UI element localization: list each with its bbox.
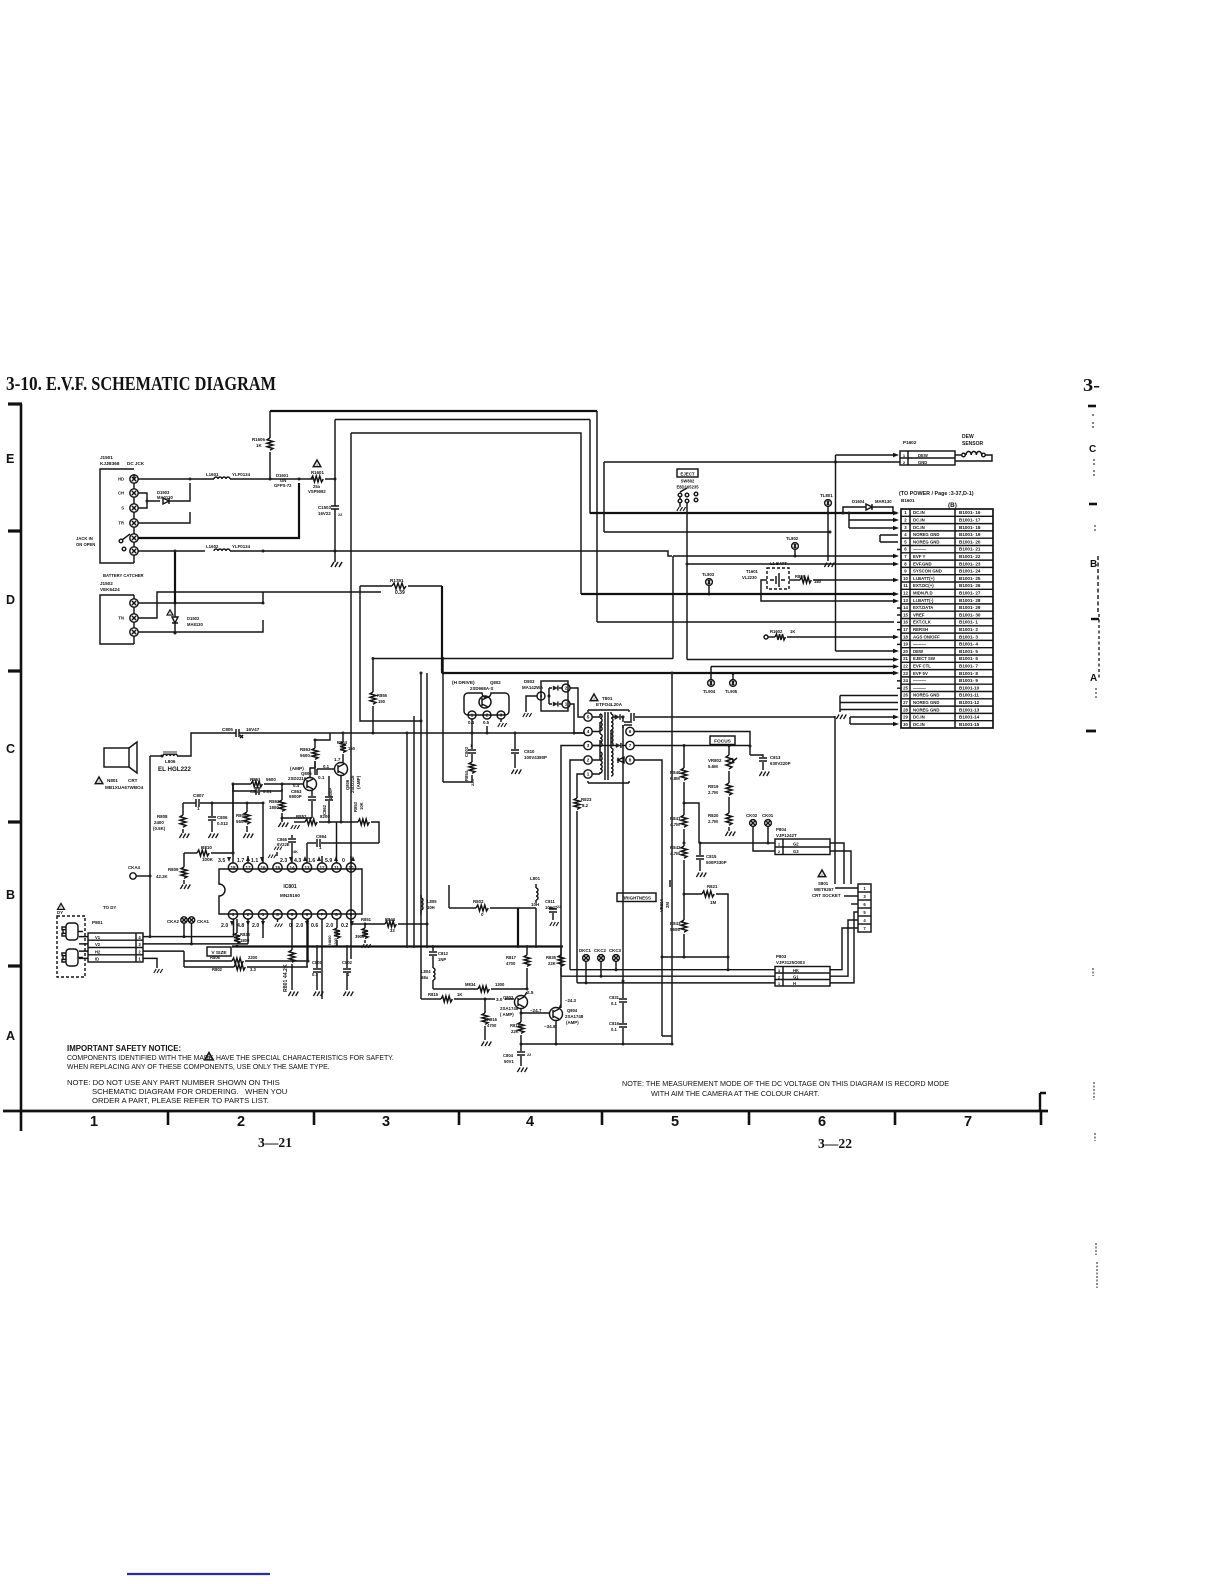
svg-text:B1001- 24: B1001- 24 (959, 569, 981, 574)
wire top bus B (y=419) (335, 420, 590, 514)
test points CKA2 CKA1 (167, 917, 210, 946)
svg-text:1: 1 (138, 957, 141, 962)
left border frame with zone letters (6, 404, 22, 1131)
svg-text:KJJB368: KJJB368 (100, 461, 120, 466)
svg-text:J1501: J1501 (100, 455, 113, 460)
wire from jack pin HD (138, 478, 214, 481)
transistor Q803 (500, 990, 534, 1017)
capacitor C811 connection (536, 908, 559, 926)
wire Q803 collector (524, 986, 527, 997)
wire row 23 EVF 5V (y=673 bus) (443, 671, 899, 676)
wires T801 left pins down (561, 746, 584, 831)
resistor R1601 (safety) (308, 460, 337, 494)
svg-text:B1001- 30: B1001- 30 (959, 612, 981, 617)
svg-text:EVF 5V: EVF 5V (913, 671, 928, 676)
svg-text:R851: R851 (361, 917, 372, 922)
svg-text:NOREG GND: NOREG GND (913, 700, 940, 705)
svg-text:!: ! (98, 779, 99, 784)
capacitor C803 / resistor R854 series (443, 733, 476, 786)
svg-text:C1503: C1503 (318, 505, 331, 510)
svg-text:–24.7: –24.7 (530, 1008, 542, 1013)
V SIZE label (207, 947, 231, 956)
svg-text:18: 18 (903, 634, 908, 639)
svg-text:10H: 10H (531, 902, 539, 907)
svg-text:42.2K: 42.2K (156, 874, 169, 879)
adjacent page number fragment 3- (1083, 375, 1100, 395)
capacitor C804 (503, 1044, 531, 1072)
diode D1503 (138, 483, 190, 504)
wire long vertical x=351 (350, 433, 352, 959)
svg-text:7: 7 (629, 743, 632, 748)
svg-text:B1001- 20: B1001- 20 (959, 539, 981, 544)
svg-text:1M: 1M (710, 900, 716, 905)
svg-text:B1001- 29: B1001- 29 (959, 605, 981, 610)
wire Q805 collector top (310, 761, 315, 777)
svg-text:9: 9 (350, 912, 353, 917)
svg-text:3: 3 (262, 912, 265, 917)
tick stubs on unconnected table rows (897, 550, 901, 689)
wire D803 pin2 to T801 pin5 (570, 688, 583, 717)
svg-text:EXT.DATA: EXT.DATA (913, 605, 933, 610)
IC801 top pin values (218, 856, 355, 864)
svg-text:NOREG GND: NOREG GND (913, 693, 940, 698)
svg-text:CRT: CRT (128, 778, 138, 783)
wire row 20 DEW (836, 649, 900, 654)
svg-text:IC801: IC801 (283, 884, 297, 890)
svg-text:10: 10 (903, 576, 908, 581)
resistor M834 (433, 982, 529, 992)
inductor L1602 (206, 544, 335, 553)
svg-text:P803: P803 (776, 954, 787, 959)
svg-text:3-: 3- (1083, 375, 1100, 395)
svg-text:CKC3: CKC3 (609, 948, 622, 953)
svg-text:4.8: 4.8 (237, 923, 244, 929)
svg-text:C811: C811 (545, 899, 555, 904)
switch SW802 EJECT (676, 469, 699, 503)
svg-text:B1001- 8: B1001- 8 (959, 671, 978, 676)
svg-text:HD: HD (118, 477, 124, 482)
svg-text:TL904: TL904 (703, 689, 716, 694)
svg-text:0: 0 (481, 912, 484, 917)
capacitor C1503 (318, 479, 342, 553)
wires rows 29,30 (850, 715, 899, 727)
svg-text:C864: C864 (316, 834, 327, 839)
wire jack pin5 to D1601 node (138, 483, 299, 538)
svg-text:2: 2 (237, 1114, 245, 1130)
bottom ruler with grid numbers (3, 1111, 1048, 1130)
svg-text:R852: R852 (296, 814, 307, 819)
svg-text:L1 BATT: L1 BATT (770, 561, 787, 566)
svg-text:BRIGHTNESS: BRIGHTNESS (622, 896, 651, 901)
svg-text:DC.IN: DC.IN (913, 715, 925, 720)
svg-text:15: 15 (275, 865, 281, 870)
svg-text:3—21: 3—21 (258, 1136, 292, 1151)
svg-text:ID: ID (95, 957, 99, 962)
svg-text:NOREG GND: NOREG GND (913, 539, 940, 544)
svg-text:6: 6 (629, 729, 632, 734)
svg-text:4.3: 4.3 (294, 858, 301, 864)
label EL HGL222 (158, 766, 191, 773)
svg-text:R820: R820 (708, 813, 719, 818)
svg-text:SENSOR: SENSOR (962, 441, 984, 447)
svg-text:C807: C807 (193, 793, 204, 798)
connector table B1601 (901, 498, 993, 728)
svg-text:TN: TN (118, 616, 124, 621)
inductor L1601 (206, 472, 272, 481)
svg-text:DEW: DEW (962, 434, 974, 440)
svg-text:Q804: Q804 (567, 1008, 578, 1013)
svg-text:4: 4 (276, 912, 279, 917)
wire row 22 EVF CTL (711, 664, 899, 669)
svg-text:16V47: 16V47 (246, 727, 260, 732)
label 0.4 C863 6800P (289, 783, 302, 799)
svg-text:N801: N801 (107, 778, 118, 783)
svg-text:(AMP): (AMP) (566, 1020, 579, 1025)
svg-text:T1601: T1601 (746, 569, 759, 574)
test point CKA4 (128, 865, 152, 879)
svg-text:2.0: 2.0 (296, 923, 303, 929)
wire bus y=673 left part (442, 660, 444, 673)
resistor R809 (156, 853, 190, 889)
svg-text:IMPORTANT SAFETY NOTICE:: IMPORTANT SAFETY NOTICE: (67, 1044, 181, 1053)
svg-text:2: 2 (565, 686, 568, 691)
resistor R844 (365, 917, 429, 933)
wire jack pin6 / L1602 (138, 550, 205, 552)
svg-text:C803: C803 (464, 746, 469, 757)
resistor R802 (184, 919, 310, 972)
svg-text:3.0: 3.0 (496, 997, 503, 1002)
svg-text:3—22: 3—22 (818, 1137, 852, 1152)
svg-text:C805: C805 (222, 727, 233, 732)
wire Q804 emitter bottom rail (521, 1021, 672, 1046)
svg-text:———: ——— (913, 678, 927, 683)
svg-text:R853: R853 (353, 801, 358, 812)
page number 3-22 (818, 1137, 852, 1152)
connector J1502 battery catcher (100, 581, 138, 644)
wire top bus A (y=411) (270, 411, 894, 622)
capacitor C862 1500P (322, 776, 333, 822)
resistor R820 (708, 813, 735, 836)
svg-text:–34.8: –34.8 (544, 1024, 556, 1029)
resistor R841 (670, 803, 687, 846)
resistor R805 (236, 803, 253, 838)
svg-text:2.0: 2.0 (252, 923, 259, 929)
svg-text:T801: T801 (602, 696, 613, 701)
battery T1601 with dashed box (742, 561, 789, 589)
resistor R808 (153, 803, 189, 838)
svg-text:17: 17 (245, 865, 251, 870)
svg-text:B1001- 19: B1001- 19 (959, 532, 981, 537)
svg-text:2SA1748: 2SA1748 (565, 1014, 584, 1019)
svg-text:ON OPEN: ON OPEN (76, 542, 95, 547)
dew sensor (955, 434, 992, 461)
wire verticals x=662,672 bottom (662, 672, 674, 1046)
svg-text:MIDN.R.D: MIDN.R.D (913, 591, 933, 596)
right margin fragments of adjacent page (1040, 406, 1099, 1288)
svg-text:10H: 10H (427, 905, 435, 910)
wire x=443 link (442, 673, 444, 782)
svg-text:2400: 2400 (154, 820, 164, 825)
svg-text:630V220P: 630V220P (770, 761, 791, 766)
svg-text:MB1XUA67WBO4: MB1XUA67WBO4 (105, 785, 144, 790)
svg-text:11: 11 (334, 865, 339, 870)
svg-text:1: 1 (587, 772, 590, 777)
svg-text:0.4: 0.4 (293, 783, 300, 788)
svg-text:1K: 1K (790, 629, 795, 634)
wire eject-box bottom (y=532) (604, 531, 832, 534)
svg-text:8: 8 (629, 758, 632, 763)
wire vertical x=407 (406, 732, 409, 949)
svg-text:0.5: 0.5 (483, 720, 490, 725)
svg-text:———: ——— (913, 642, 927, 647)
svg-text:DKC1: DKC1 (579, 948, 592, 953)
connector P801 (88, 920, 143, 962)
svg-text:B1001- 2: B1001- 2 (959, 627, 978, 632)
ground below eject switch (677, 503, 686, 511)
svg-text:HK: HK (793, 968, 799, 973)
potentiometer VR804 (659, 880, 670, 912)
svg-text:2: 2 (587, 758, 590, 763)
label N801 CRT (95, 777, 144, 790)
svg-text:B1001- 3: B1001- 3 (959, 634, 978, 639)
svg-text:VJP1242T: VJP1242T (776, 833, 797, 838)
svg-text:2.0: 2.0 (221, 923, 228, 929)
svg-text:27: 27 (903, 700, 908, 705)
svg-text:7: 7 (863, 926, 866, 931)
svg-text:1800: 1800 (240, 938, 250, 943)
svg-text:BATTERY CATCHER: BATTERY CATCHER (103, 573, 144, 578)
svg-text:16: 16 (903, 620, 908, 625)
svg-text:E: E (6, 452, 14, 466)
wire Q803 emitter to Q804 base (520, 1008, 551, 1015)
svg-text:2.7M: 2.7M (708, 819, 718, 824)
svg-text:VR802: VR802 (708, 758, 722, 763)
svg-text:5600: 5600 (300, 753, 310, 758)
wire row 21 EJECT SW (373, 657, 899, 662)
svg-text:7: 7 (964, 1114, 972, 1130)
svg-text:TL803: TL803 (702, 572, 715, 577)
svg-text:DC JCK: DC JCK (127, 461, 145, 466)
wire pin7 row (592, 743, 750, 748)
svg-text:4: 4 (863, 918, 866, 923)
wire Q806 emitter down (340, 776, 342, 822)
svg-text:B1001-11: B1001-11 (959, 693, 979, 698)
op-amp IC801 MN25160 (219, 863, 362, 919)
wires P801 to DY (79, 937, 88, 959)
inductor L801 (530, 876, 541, 907)
resistor R821 (683, 884, 729, 957)
ordering note text block (67, 1078, 287, 1105)
svg-text:EJECT: EJECT (680, 471, 694, 476)
wire R861 node to Q805 base (282, 783, 303, 785)
capacitor C801 (312, 0, 323, 999)
svg-text:B1001- 28: B1001- 28 (959, 598, 981, 603)
resistor R833 (234, 919, 251, 947)
wire DEW line (836, 453, 900, 651)
capacitor C815 (696, 842, 727, 878)
svg-text:1NP: 1NP (438, 957, 446, 962)
svg-text:———: ——— (913, 685, 927, 690)
svg-text:50V1: 50V1 (504, 1059, 514, 1064)
svg-text:R809: R809 (168, 867, 179, 872)
svg-text:C815: C815 (706, 854, 717, 859)
svg-text:S: S (121, 506, 124, 511)
svg-text:30: 30 (903, 722, 908, 727)
wire vertical x=421 (420, 672, 423, 1000)
wire vertical x=427 (426, 673, 428, 947)
svg-text:———: ——— (913, 547, 927, 552)
svg-text:D1604: D1604 (852, 499, 865, 504)
svg-text:EJECT SW: EJECT SW (913, 656, 936, 661)
transistor Q806 (323, 757, 361, 793)
svg-text:B1001- 26: B1001- 26 (959, 583, 981, 588)
wires IC801 bottom pins (234, 919, 352, 999)
svg-text:TL802: TL802 (786, 536, 799, 541)
svg-text:8200: 8200 (320, 814, 330, 819)
test point TL803 (702, 572, 715, 596)
svg-text:SCHEMATIC DIAGRAM FOR ORDERING: SCHEMATIC DIAGRAM FOR ORDERING. WHEN YOU (92, 1087, 287, 1096)
svg-text:25: 25 (903, 685, 908, 690)
resistor R842 (670, 842, 687, 895)
svg-text:WET9267: WET9267 (814, 887, 834, 892)
test point CK02 (746, 813, 775, 851)
svg-text:B1001- 16: B1001- 16 (959, 510, 981, 515)
resistor R803 (462, 899, 536, 917)
wire pin6 row (634, 732, 750, 747)
svg-text:YLF0134: YLF0134 (232, 472, 251, 477)
svg-text:R819: R819 (708, 784, 719, 789)
label BATTERY CATCHER (103, 573, 144, 578)
capacitor C807 (183, 793, 263, 811)
test point TL801 (820, 493, 834, 567)
svg-text:E.V.F. SCHEMATIC DIAGRAM: E.V.F. SCHEMATIC DIAGRAM (46, 373, 276, 395)
svg-text:3: 3 (863, 894, 866, 899)
resistor R863 (300, 739, 318, 776)
svg-text:5: 5 (587, 715, 590, 720)
svg-text:GFPS-72: GFPS-72 (274, 483, 292, 488)
svg-text:TL905: TL905 (725, 689, 738, 694)
svg-text:1: 1 (471, 713, 474, 718)
svg-text:R806: R806 (210, 955, 221, 960)
svg-text:WHEN REPLACING ANY OF THESE CO: WHEN REPLACING ANY OF THESE COMPONENTS, … (67, 1064, 330, 1071)
capacitor C813 (749, 745, 791, 777)
svg-text:1: 1 (197, 806, 200, 811)
svg-text:16V22: 16V22 (318, 511, 331, 516)
test point CK01 (762, 813, 774, 843)
svg-text:B: B (1090, 559, 1097, 570)
svg-text:22: 22 (903, 664, 908, 669)
resistor R862 (269, 789, 312, 820)
svg-text:J1502: J1502 (100, 581, 113, 586)
svg-text:C813: C813 (770, 755, 781, 760)
svg-text:DC.IN: DC.IN (913, 518, 925, 523)
resistor R806 (184, 951, 308, 964)
resistor R810 (184, 845, 235, 862)
svg-text:C806: C806 (217, 815, 228, 820)
svg-text:C804: C804 (503, 1053, 514, 1058)
svg-text:3.5: 3.5 (218, 858, 225, 864)
svg-text:12: 12 (319, 865, 325, 870)
svg-text:3: 3 (540, 694, 543, 699)
svg-text:C810: C810 (524, 749, 535, 754)
svg-text:D1502: D1502 (187, 616, 200, 621)
svg-text:SW802: SW802 (681, 479, 695, 484)
wire R815 feed line (421, 998, 437, 1000)
wire L806 left to vertical (150, 756, 162, 937)
svg-text:3: 3 (138, 942, 141, 947)
svg-text:VJP3125O003: VJP3125O003 (776, 960, 805, 965)
FOCUS label (710, 736, 735, 745)
svg-text:3: 3 (778, 968, 781, 973)
svg-text:A: A (6, 1029, 15, 1043)
wire row 12 (y=594) (581, 592, 899, 597)
wire pin8 row (592, 757, 662, 766)
resistor R840 (670, 746, 687, 805)
wire big loop top (y=433) (351, 433, 581, 594)
svg-text:LI.BATT(+): LI.BATT(+) (913, 576, 935, 581)
svg-text:ETFO4L20A: ETFO4L20A (596, 702, 623, 707)
svg-text:1: 1 (319, 845, 322, 850)
svg-text:CRT SOCKET: CRT SOCKET (812, 893, 841, 898)
svg-text:(0.5K): (0.5K) (153, 826, 166, 831)
svg-text:5: 5 (863, 910, 866, 915)
svg-text:NOTE: THE MEASUREMENT MODE OF: NOTE: THE MEASUREMENT MODE OF THE DC VOL… (622, 1079, 949, 1088)
wire pin18 R810 (232, 784, 235, 855)
wires P803 to socket (830, 912, 858, 983)
connector P804 (775, 827, 830, 855)
svg-text:18: 18 (230, 865, 236, 870)
svg-text:2200: 2200 (248, 955, 258, 960)
svg-text:EVF.GND: EVF.GND (913, 561, 932, 566)
wires Q802 pins to bus (471, 719, 489, 735)
CRT socket S801 (812, 870, 871, 932)
svg-text:C812: C812 (438, 951, 449, 956)
svg-text:R808: R808 (157, 814, 168, 819)
svg-text:0.1: 0.1 (611, 1027, 617, 1032)
capacitor C810 (511, 732, 547, 775)
svg-text:21: 21 (903, 656, 908, 661)
wires P804 to CRT socket (830, 843, 851, 884)
svg-text:0.012: 0.012 (217, 821, 229, 826)
svg-text:4: 4 (587, 729, 590, 734)
resistor R850 (327, 919, 340, 947)
capacitor C805 (222, 727, 373, 738)
svg-text:B1001- 6: B1001- 6 (959, 656, 978, 661)
svg-text:AGS ON/OFF: AGS ON/OFF (913, 634, 940, 639)
transistor Q802 H DRIVE (452, 680, 509, 727)
svg-text:B1001-15: B1001-15 (959, 722, 980, 727)
resistor R1602 (764, 629, 899, 640)
svg-text:B1001- 22: B1001- 22 (959, 554, 981, 559)
svg-text:1: 1 (565, 702, 568, 707)
svg-text:FOCUS: FOCUS (714, 739, 732, 745)
svg-text:2.3: 2.3 (280, 858, 287, 864)
wire row 8 EVF GND (686, 562, 900, 567)
svg-text:10: 10 (348, 865, 354, 870)
svg-text:R1601: R1601 (311, 470, 324, 475)
svg-text:MAR130: MAR130 (875, 499, 892, 504)
svg-text:2: 2 (903, 460, 906, 465)
svg-text:6: 6 (306, 912, 309, 917)
inductor L806 (161, 751, 178, 764)
svg-text:1: 1 (90, 1114, 98, 1130)
diode D802 at T801 pin5 (592, 714, 632, 728)
svg-text:G1: G1 (793, 975, 799, 980)
svg-text:VSP9092: VSP9092 (308, 489, 326, 494)
IC801 bottom pin values (221, 921, 354, 929)
svg-text:B1001-13: B1001-13 (959, 707, 980, 712)
wire battery pin3 (138, 620, 263, 632)
